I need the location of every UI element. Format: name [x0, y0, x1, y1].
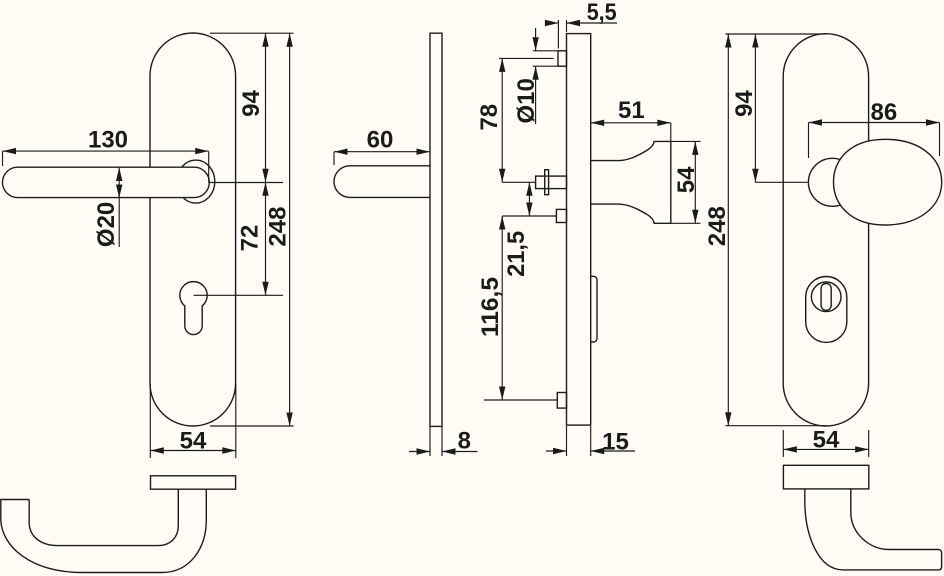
svg-text:78: 78 [476, 104, 503, 131]
svg-text:15: 15 [602, 428, 629, 455]
svg-text:86: 86 [871, 99, 898, 126]
svg-text:21,5: 21,5 [503, 231, 530, 277]
svg-text:8: 8 [458, 428, 471, 455]
svg-text:60: 60 [367, 127, 394, 154]
svg-text:54: 54 [673, 166, 700, 193]
svg-text:116,5: 116,5 [477, 277, 504, 337]
svg-text:248: 248 [265, 207, 292, 247]
svg-text:51: 51 [618, 97, 645, 124]
svg-text:248: 248 [704, 206, 731, 246]
svg-text:Ø20: Ø20 [93, 202, 120, 247]
svg-text:94: 94 [731, 90, 758, 117]
svg-text:94: 94 [238, 90, 265, 117]
svg-text:130: 130 [88, 126, 128, 153]
svg-text:54: 54 [813, 427, 840, 454]
svg-text:Ø10: Ø10 [513, 78, 540, 123]
svg-text:5,5: 5,5 [587, 0, 617, 26]
svg-text:72: 72 [237, 225, 264, 252]
svg-text:54: 54 [180, 428, 207, 455]
